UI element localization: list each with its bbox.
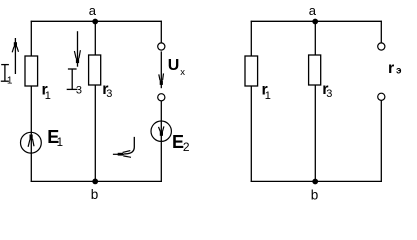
svg-text:1: 1 (265, 90, 271, 102)
svg-text:b: b (91, 187, 99, 202)
svg-text:1: 1 (57, 137, 63, 149)
svg-text:b: b (311, 188, 319, 203)
svg-text:3: 3 (76, 85, 82, 97)
svg-text:1: 1 (45, 90, 51, 102)
svg-text:a: a (89, 3, 97, 18)
svg-text:2: 2 (183, 140, 190, 154)
svg-text:a: a (309, 3, 317, 18)
svg-text:3: 3 (326, 88, 332, 100)
svg-text:U: U (168, 57, 180, 74)
svg-text:э: э (396, 66, 402, 77)
svg-text:x: x (180, 67, 185, 78)
svg-text:1: 1 (7, 75, 13, 86)
svg-text:r: r (388, 60, 394, 77)
svg-text:3: 3 (106, 88, 112, 100)
